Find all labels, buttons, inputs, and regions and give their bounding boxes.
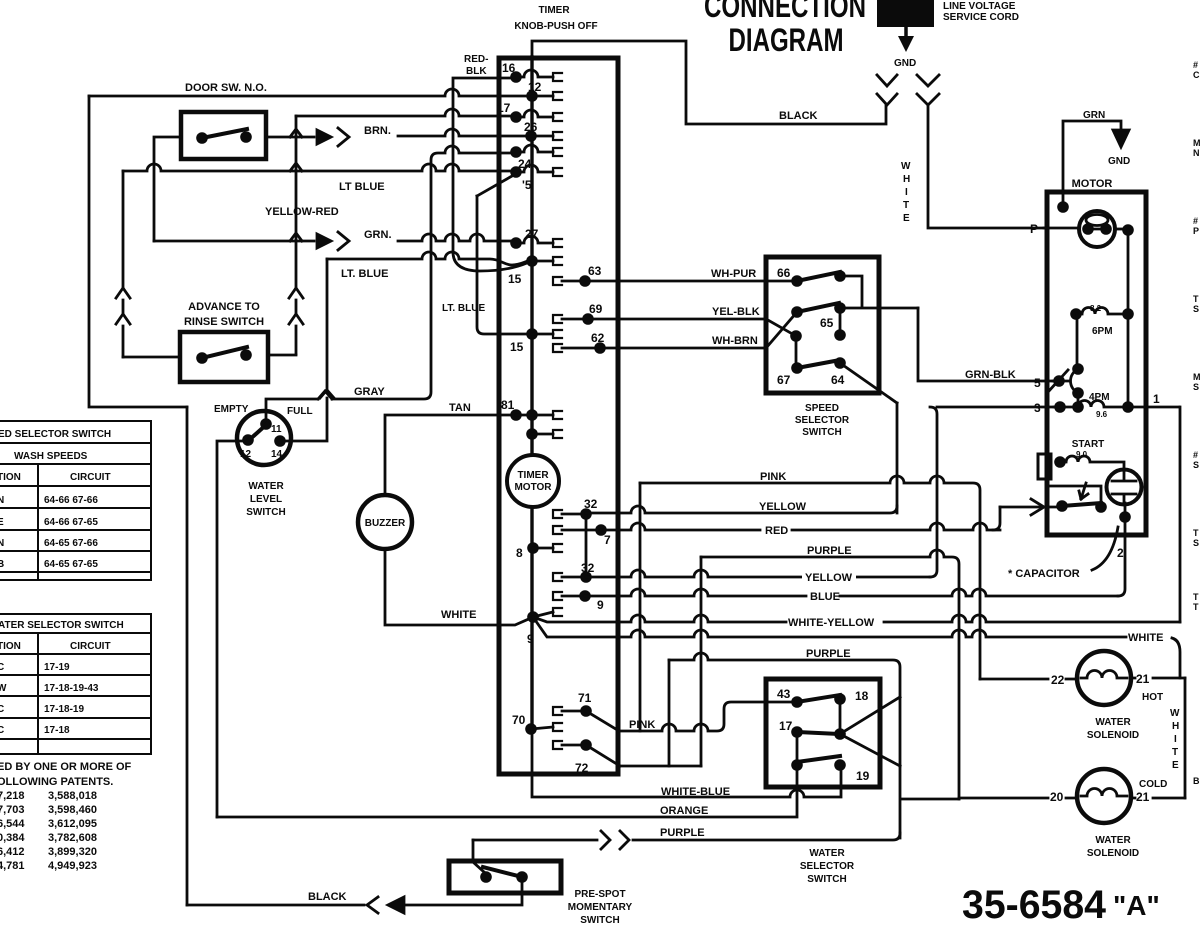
svg-text:ATER SELECTOR SWITCH: ATER SELECTOR SWITCH — [0, 620, 124, 631]
wire motor 3 from speed riser — [930, 407, 1054, 577]
speed selector switch S4 — [766, 257, 879, 393]
svg-text:GRN-BLK: GRN-BLK — [965, 369, 1016, 381]
svg-text:C: C — [0, 704, 4, 715]
svg-text:35-6584: 35-6584 — [962, 883, 1107, 927]
start capacitor C1 — [1107, 470, 1142, 505]
svg-text:B: B — [0, 559, 4, 570]
svg-text:GRN: GRN — [1083, 110, 1105, 121]
timer terminal 26 — [525, 130, 537, 142]
svg-text:SELECTOR: SELECTOR — [795, 415, 850, 426]
svg-text:17-18-19: 17-18-19 — [44, 704, 84, 715]
svg-text:9: 9 — [597, 598, 604, 612]
svg-text:P: P — [1193, 226, 1199, 236]
svg-text:67: 67 — [777, 373, 791, 387]
svg-text:24: 24 — [518, 157, 532, 171]
svg-text:OLLOWING PATENTS.: OLLOWING PATENTS. — [0, 776, 113, 788]
timer terminal 71 — [553, 707, 562, 715]
svg-text:BLUE: BLUE — [810, 591, 840, 603]
wire PURPLE row 1 — [701, 550, 959, 799]
svg-text:TION: TION — [0, 641, 21, 652]
pre-spot momentary switch S6 — [449, 861, 561, 893]
wire capacitor 2 to blue row — [1118, 517, 1125, 596]
wire PURPLE riser 701 — [700, 557, 703, 766]
wire BLUE row to capacitor 2 — [585, 589, 1118, 596]
svg-text:ED SELECTOR SWITCH: ED SELECTOR SWITCH — [0, 429, 111, 440]
svg-text:SWITCH: SWITCH — [807, 874, 846, 885]
svg-text:T: T — [1193, 528, 1199, 538]
motor terminal 1 — [1122, 401, 1134, 413]
door switch S1 — [181, 112, 266, 159]
svg-text:EMPTY: EMPTY — [214, 404, 249, 415]
svg-text:WASH SPEEDS: WASH SPEEDS — [14, 451, 88, 462]
right edge clipped legend fragments — [1193, 60, 1200, 786]
wire YELLOW lower row to motor 3 — [586, 570, 930, 577]
svg-text:WH-PUR: WH-PUR — [711, 268, 756, 280]
wire purple riser junctions — [900, 766, 959, 838]
svg-text:70: 70 — [512, 713, 526, 727]
wire GRAY water level 11 to timer — [266, 146, 511, 421]
svg-text:PURPLE: PURPLE — [806, 648, 851, 660]
svg-text:8.2: 8.2 — [1090, 304, 1102, 313]
timer terminal 63 — [553, 277, 562, 285]
svg-text:"A": "A" — [1113, 890, 1160, 921]
svg-text:17-18-19-43: 17-18-19-43 — [44, 683, 99, 694]
svg-text:WATER: WATER — [1095, 835, 1131, 846]
svg-text:ADVANCE TO: ADVANCE TO — [188, 301, 260, 313]
svg-text:3,588,018: 3,588,018 — [48, 790, 97, 802]
svg-text:B: B — [1193, 776, 1200, 786]
svg-text:7,218: 7,218 — [0, 790, 25, 802]
timer terminal 9 junction — [553, 608, 562, 616]
wire PURPLE row 2 — [669, 653, 900, 766]
svg-text:TAN: TAN — [449, 402, 471, 414]
svg-text:20: 20 — [1050, 790, 1064, 804]
wire motor 1 riser to hot solenoid — [1179, 407, 1182, 622]
svg-text:6,412: 6,412 — [0, 846, 25, 858]
buzzer B1 — [358, 495, 412, 549]
svg-text:PURPLE: PURPLE — [660, 827, 705, 839]
svg-text:P: P — [1030, 222, 1038, 236]
svg-text:#: # — [1193, 216, 1198, 226]
wire TAN buzzer to timer 81 — [385, 415, 511, 495]
timer terminal 12 — [526, 90, 538, 102]
svg-text:17: 17 — [497, 101, 511, 115]
wire WHITE riser between solenoids — [1184, 678, 1187, 798]
title CONNECTION DIAGRAM — [704, 0, 866, 58]
svg-text:E: E — [1172, 760, 1179, 771]
table water selector switch (left, clipped) — [0, 614, 151, 754]
svg-text:WHITE: WHITE — [441, 609, 476, 621]
svg-text:BUZZER: BUZZER — [365, 518, 406, 529]
svg-text:C: C — [0, 725, 4, 736]
svg-text:64-65 67-65: 64-65 67-65 — [44, 559, 98, 570]
svg-text:4PM: 4PM — [1089, 392, 1110, 403]
svg-text:7,703: 7,703 — [0, 804, 25, 816]
svg-text:WHITE-BLUE: WHITE-BLUE — [661, 786, 730, 798]
svg-text:CONNECTION: CONNECTION — [704, 0, 866, 24]
motor 6PM winding — [1070, 308, 1082, 320]
svg-text:15: 15 — [510, 340, 524, 354]
svg-text:4,949,923: 4,949,923 — [48, 860, 97, 872]
wire PINK upper row — [640, 476, 980, 679]
wire BRN door switch to timer 26 — [266, 136, 314, 139]
drawing number 35-6584 "A" — [962, 883, 1160, 927]
svg-text:PINK: PINK — [760, 471, 786, 483]
wire WHITE-BLUE timer 70 to water selector 19 — [532, 729, 841, 797]
svg-text:66: 66 — [777, 266, 791, 280]
svg-text:YELLOW-RED: YELLOW-RED — [265, 206, 339, 218]
wire timer 17 from rinse riser — [296, 109, 511, 116]
svg-text:62: 62 — [591, 331, 605, 345]
timer terminal 8 — [527, 542, 539, 554]
svg-text:RED-: RED- — [464, 54, 488, 65]
wire WHITE-YELLOW row — [533, 615, 1180, 622]
svg-text:WH-BRN: WH-BRN — [712, 335, 758, 347]
wire ORANGE water level 12 to water selector 17 — [217, 765, 797, 817]
timer terminal 15 upper — [526, 255, 538, 267]
svg-text:32: 32 — [584, 497, 598, 511]
svg-text:SOLENOID: SOLENOID — [1087, 730, 1139, 741]
svg-text:I: I — [1174, 734, 1177, 745]
timer terminal 15 lower — [526, 328, 538, 340]
svg-text:T: T — [903, 200, 909, 211]
timer terminal 17 — [510, 111, 522, 123]
svg-text:64-66 67-66: 64-66 67-66 — [44, 495, 98, 506]
svg-text:GND: GND — [1108, 156, 1130, 167]
svg-text:T: T — [1193, 602, 1199, 612]
svg-text:SWITCH: SWITCH — [580, 915, 619, 926]
svg-text:1: 1 — [1153, 392, 1160, 406]
svg-text:26: 26 — [524, 120, 538, 134]
svg-text:START: START — [1072, 439, 1105, 450]
svg-text:WHITE-YELLOW: WHITE-YELLOW — [788, 617, 875, 629]
svg-text:4,781: 4,781 — [0, 860, 25, 872]
svg-text:C: C — [0, 662, 4, 673]
svg-text:17-19: 17-19 — [44, 662, 70, 673]
wire BLACK bottom run — [404, 877, 522, 905]
svg-text:ORANGE: ORANGE — [660, 805, 708, 817]
motor terminal 4 wire — [1000, 506, 1062, 509]
svg-text:TION: TION — [0, 472, 21, 483]
svg-text:M: M — [1193, 372, 1200, 382]
wire YELLOW upper row — [586, 506, 897, 513]
svg-text:KNOB-PUSH OFF: KNOB-PUSH OFF — [514, 21, 597, 32]
wire PINK riser — [639, 483, 642, 731]
svg-text:LT. BLUE: LT. BLUE — [341, 268, 388, 280]
svg-text:CIRCUIT: CIRCUIT — [70, 641, 111, 652]
timer terminal 69 — [553, 315, 562, 323]
ground arrow from service cord — [904, 27, 908, 37]
svg-text:32: 32 — [581, 561, 595, 575]
svg-text:I: I — [905, 187, 908, 198]
svg-text:17-18: 17-18 — [44, 725, 70, 736]
svg-text:RED: RED — [765, 525, 788, 537]
svg-text:COLD: COLD — [1139, 779, 1167, 790]
motor 4PM winding and terminal 3 — [1077, 393, 1080, 407]
svg-text:#: # — [1193, 60, 1198, 70]
wire water level 12 to orange row — [217, 441, 243, 817]
svg-text:BLACK: BLACK — [308, 891, 347, 903]
timer motor M1 — [507, 455, 559, 507]
wire left rail down to black — [186, 407, 189, 905]
svg-text:PRE-SPOT: PRE-SPOT — [574, 889, 625, 900]
svg-text:9: 9 — [527, 632, 534, 646]
timer terminal 81 — [510, 409, 522, 421]
svg-text:64-65 67-66: 64-65 67-66 — [44, 538, 98, 549]
svg-text:YELLOW: YELLOW — [759, 501, 807, 513]
svg-text:WATER: WATER — [248, 481, 284, 492]
svg-text:12: 12 — [528, 80, 542, 94]
svg-text:MOTOR: MOTOR — [1072, 178, 1113, 190]
svg-text:RINSE SWITCH: RINSE SWITCH — [184, 316, 264, 328]
svg-text:3,598,460: 3,598,460 — [48, 804, 97, 816]
svg-text:SPEED: SPEED — [805, 403, 839, 414]
svg-text:SWITCH: SWITCH — [802, 427, 841, 438]
svg-text:22: 22 — [1051, 673, 1065, 687]
svg-text:0,384: 0,384 — [0, 832, 25, 844]
svg-text:11: 11 — [271, 424, 282, 435]
svg-text:BRN.: BRN. — [364, 125, 391, 137]
wire WHITE from service cord to motor P — [928, 105, 1044, 228]
motor terminal 5 — [1053, 375, 1065, 387]
svg-text:S: S — [1193, 538, 1199, 548]
svg-text:14: 14 — [271, 449, 283, 460]
svg-text:H: H — [903, 174, 910, 185]
svg-text:TIMER: TIMER — [538, 5, 570, 16]
svg-text:'5: '5 — [522, 178, 532, 192]
svg-text:DIAGRAM: DIAGRAM — [729, 22, 844, 58]
svg-text:GND: GND — [894, 58, 916, 69]
svg-text:SOLENOID: SOLENOID — [1087, 848, 1139, 859]
svg-text:W: W — [901, 161, 911, 172]
timer terminal 32 lower — [553, 573, 562, 581]
wire timer 15 upper from water level riser — [327, 252, 528, 265]
svg-text:2: 2 — [1117, 546, 1124, 560]
svg-text:N: N — [1193, 148, 1200, 158]
wire WHITE row to solenoids — [533, 617, 1180, 678]
svg-text:27: 27 — [525, 227, 539, 241]
svg-text:17: 17 — [779, 719, 793, 733]
svg-text:BLK: BLK — [466, 66, 487, 77]
svg-text:GRAY: GRAY — [354, 386, 385, 398]
svg-text:PURPLE: PURPLE — [807, 545, 852, 557]
wire 72 row — [620, 765, 701, 768]
svg-text:12: 12 — [240, 449, 252, 460]
timer terminal 24 with link to 5 — [510, 166, 522, 178]
svg-text:3,782,608: 3,782,608 — [48, 832, 97, 844]
svg-text:72: 72 — [575, 761, 589, 775]
svg-text:6,544: 6,544 — [0, 818, 25, 830]
svg-text:LT. BLUE: LT. BLUE — [442, 303, 485, 314]
patents note text — [0, 761, 132, 872]
svg-text:#: # — [1193, 450, 1198, 460]
svg-text:DOOR SW. N.O.: DOOR SW. N.O. — [185, 82, 267, 94]
timer knob label — [514, 5, 597, 32]
svg-text:CIRCUIT: CIRCUIT — [70, 472, 111, 483]
svg-text:M: M — [1193, 138, 1200, 148]
hot water solenoid L1 — [980, 678, 1077, 681]
cold water solenoid L2 — [959, 797, 1077, 800]
svg-text:SELECTOR: SELECTOR — [800, 861, 855, 872]
wire RED row to motor 4 — [601, 523, 1000, 530]
timer terminal 7 — [553, 526, 562, 534]
svg-text:71: 71 — [578, 691, 592, 705]
svg-text:H: H — [1172, 721, 1179, 732]
table speed selector switch (left, clipped) — [0, 421, 151, 580]
wire PINK lower row to water selector 43 — [619, 702, 791, 731]
svg-text:15: 15 — [508, 272, 522, 286]
svg-text:9.0: 9.0 — [1076, 450, 1088, 459]
timer terminal 62 — [553, 344, 562, 352]
svg-text:WATER: WATER — [1095, 717, 1131, 728]
svg-text:C: C — [1193, 70, 1200, 80]
connector chevrons below service cord — [877, 75, 897, 86]
motor winding link — [1076, 314, 1079, 369]
water level switch S3 — [237, 411, 291, 465]
svg-text:LINE VOLTAGE: LINE VOLTAGE — [943, 1, 1016, 12]
svg-text:69: 69 — [589, 302, 603, 316]
svg-text:* CAPACITOR: * CAPACITOR — [1008, 568, 1080, 580]
svg-text:64-66 67-65: 64-66 67-65 — [44, 517, 98, 528]
svg-text:E: E — [0, 517, 4, 528]
svg-text:YELLOW: YELLOW — [805, 572, 853, 584]
svg-text:PINK: PINK — [629, 719, 655, 731]
wire purple to pre-spot switch — [473, 840, 484, 872]
start switch blade — [1056, 500, 1068, 512]
wire BLACK from timer to service cord — [532, 41, 886, 124]
wire PURPLE riser 669 — [668, 660, 671, 766]
svg-text:6PM: 6PM — [1092, 326, 1113, 337]
svg-text:S: S — [1193, 460, 1199, 470]
svg-text:S: S — [1193, 382, 1199, 392]
svg-text:81: 81 — [501, 398, 515, 412]
svg-text:21: 21 — [1136, 790, 1150, 804]
svg-text:W: W — [1170, 708, 1180, 719]
wire GRN motor ground — [1063, 121, 1121, 202]
wire door switch left — [154, 137, 181, 241]
svg-text:19: 19 — [856, 769, 870, 783]
svg-text:T: T — [1193, 294, 1199, 304]
svg-text:WHITE: WHITE — [1128, 632, 1163, 644]
timer box — [499, 58, 618, 774]
svg-text:18: 18 — [855, 689, 869, 703]
svg-text:65: 65 — [820, 316, 834, 330]
svg-text:9.6: 9.6 — [1096, 410, 1108, 419]
svg-text:3,899,320: 3,899,320 — [48, 846, 97, 858]
wire WHITE buzzer to timer 9 junction — [385, 549, 531, 625]
timer terminal below 81 — [526, 428, 538, 440]
wire rinse left riser with connectors — [122, 171, 125, 357]
wire rinse right riser with connectors — [295, 116, 298, 354]
advance to rinse switch S2 — [180, 332, 268, 382]
svg-text:21: 21 — [1136, 672, 1150, 686]
svg-text:7: 7 — [604, 533, 611, 547]
svg-text:T: T — [1193, 592, 1199, 602]
svg-text:MOTOR: MOTOR — [514, 482, 552, 493]
motor box — [1047, 192, 1146, 535]
wire left rail to timer 12 — [89, 89, 527, 96]
link 32-32 — [585, 514, 588, 577]
timer terminal 72 — [553, 741, 562, 749]
water selector switch S5 — [766, 679, 880, 787]
svg-text:SERVICE CORD: SERVICE CORD — [943, 12, 1019, 23]
svg-text:43: 43 — [777, 687, 791, 701]
wire RED-BLK riser to timer 16 — [453, 78, 511, 252]
svg-text:S: S — [1193, 304, 1199, 314]
svg-text:5: 5 — [1034, 376, 1041, 390]
svg-text:SWITCH: SWITCH — [246, 507, 285, 518]
timer cam bus wire — [530, 57, 533, 729]
wire GRN-BLK speed selector to motor 5 — [918, 308, 1053, 381]
svg-text:TIMER: TIMER — [517, 470, 549, 481]
svg-text:16: 16 — [502, 61, 516, 75]
svg-text:MOMENTARY: MOMENTARY — [568, 902, 633, 913]
timer terminal 16 — [510, 71, 522, 83]
svg-text:64: 64 — [831, 373, 845, 387]
svg-text:LEVEL: LEVEL — [250, 494, 282, 505]
wire GRN yellow-red row to timer 27 — [154, 240, 314, 243]
wire water level 14 riser — [285, 259, 327, 441]
svg-text:GRN.: GRN. — [364, 229, 392, 241]
wire speed selector to yellow row riser — [896, 403, 899, 513]
svg-text:N: N — [0, 538, 4, 549]
svg-text:LT BLUE: LT BLUE — [339, 181, 385, 193]
timer terminal (gray row) — [510, 146, 522, 158]
svg-text:T: T — [1172, 747, 1178, 758]
timer terminal 32 upper — [553, 510, 562, 518]
timer terminal 27 — [510, 237, 522, 249]
svg-text:HOT: HOT — [1142, 692, 1163, 703]
svg-text:3,612,095: 3,612,095 — [48, 818, 97, 830]
timer terminal 70 — [525, 723, 537, 735]
svg-text:63: 63 — [588, 264, 602, 278]
svg-text:E: E — [903, 213, 910, 224]
svg-text:YEL-BLK: YEL-BLK — [712, 306, 760, 318]
svg-text:ED BY ONE OR MORE OF: ED BY ONE OR MORE OF — [0, 761, 132, 773]
svg-text:8: 8 — [516, 546, 523, 560]
svg-text:BLACK: BLACK — [779, 110, 818, 122]
wire PURPLE bottom row — [473, 833, 900, 840]
wire left rail riser — [89, 96, 187, 407]
timer terminal 9 — [553, 592, 562, 600]
svg-text:W: W — [0, 683, 7, 694]
svg-text:FULL: FULL — [287, 406, 313, 417]
svg-text:WATER: WATER — [809, 848, 845, 859]
motor internal bus to terminal 1 — [1127, 230, 1130, 407]
wire LT BLUE rinse left to timer 24 — [123, 164, 511, 171]
svg-text:N: N — [0, 495, 4, 506]
line voltage service cord (black block) — [877, 0, 934, 27]
